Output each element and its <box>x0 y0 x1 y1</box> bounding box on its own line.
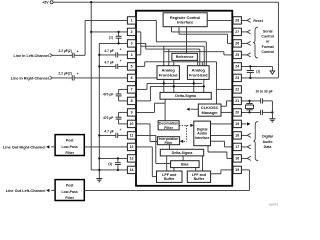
svg-text:Reference: Reference <box>176 55 194 59</box>
svg-text:26: 26 <box>235 42 239 46</box>
svg-text:9: 9 <box>131 111 133 115</box>
svg-text:Low-Pass: Low-Pass <box>62 190 78 194</box>
svg-text:4.7 µF: 4.7 µF <box>104 49 113 53</box>
svg-text:Control: Control <box>261 50 274 54</box>
svg-text:Line Out Right-Channel: Line Out Right-Channel <box>3 145 45 149</box>
svg-text:DS87F1: DS87F1 <box>269 203 279 207</box>
svg-text:10: 10 <box>130 122 134 126</box>
svg-text:Manager: Manager <box>202 110 219 115</box>
svg-text:Format: Format <box>262 45 275 49</box>
svg-text:LPF and: LPF and <box>162 173 176 177</box>
svg-text:+: + <box>120 59 122 63</box>
svg-text:13: 13 <box>130 157 134 161</box>
svg-text:Bias: Bias <box>181 162 188 166</box>
svg-text:470 pF: 470 pF <box>103 93 113 97</box>
svg-text:Buffer: Buffer <box>164 177 175 181</box>
svg-text:+: + <box>120 128 122 132</box>
svg-text:Filter: Filter <box>65 151 74 155</box>
svg-text:22: 22 <box>235 88 239 92</box>
svg-text:Audio: Audio <box>262 140 273 144</box>
svg-text:(1): (1) <box>108 162 112 166</box>
svg-text:Low-Pass: Low-Pass <box>62 145 78 149</box>
svg-text:Line In Right-Channel: Line In Right-Channel <box>11 76 49 80</box>
svg-text:21: 21 <box>235 99 239 103</box>
svg-text:24: 24 <box>235 65 239 69</box>
svg-text:2.2 µF(2): 2.2 µF(2) <box>58 71 71 75</box>
svg-text:470 pF: 470 pF <box>103 116 113 120</box>
svg-text:Filter: Filter <box>164 126 173 130</box>
svg-text:18: 18 <box>235 134 239 138</box>
svg-text:4: 4 <box>131 53 133 57</box>
svg-text:3: 3 <box>131 42 133 46</box>
svg-text:8: 8 <box>131 99 133 103</box>
svg-text:6: 6 <box>131 76 133 80</box>
svg-text:23: 23 <box>235 76 239 80</box>
svg-text:14: 14 <box>130 168 134 172</box>
svg-text:Front-End: Front-End <box>159 72 178 77</box>
svg-text:Filter: Filter <box>165 141 174 145</box>
svg-text:10 to 33 pF: 10 to 33 pF <box>255 89 272 93</box>
svg-text:LPF and: LPF and <box>192 173 206 177</box>
svg-text:27: 27 <box>235 30 239 34</box>
svg-text:28: 28 <box>235 19 239 23</box>
svg-text:Filter: Filter <box>65 196 74 200</box>
svg-text:Interface: Interface <box>195 136 210 140</box>
svg-text:16: 16 <box>235 157 239 161</box>
svg-text:Delta-Sigma: Delta-Sigma <box>175 94 197 98</box>
svg-text:Digital: Digital <box>262 135 273 139</box>
svg-text:5: 5 <box>131 65 133 69</box>
svg-text:7: 7 <box>131 88 133 92</box>
svg-text:Buffer: Buffer <box>194 177 205 181</box>
svg-text:19: 19 <box>235 122 239 126</box>
svg-text:Data: Data <box>264 145 272 149</box>
svg-text:Serial: Serial <box>263 29 273 33</box>
svg-text:(1): (1) <box>256 70 260 74</box>
svg-text:4.7 µF: 4.7 µF <box>104 129 113 133</box>
svg-text:17: 17 <box>235 145 239 149</box>
svg-text:+: + <box>120 48 122 52</box>
svg-text:Interface: Interface <box>177 20 194 25</box>
svg-text:12: 12 <box>130 145 134 149</box>
svg-text:Reset: Reset <box>253 19 263 23</box>
svg-text:Post: Post <box>66 184 74 188</box>
svg-text:11: 11 <box>130 134 134 138</box>
svg-text:4.7 µF: 4.7 µF <box>104 60 113 64</box>
svg-text:+: + <box>77 49 79 53</box>
svg-text:or: or <box>266 40 270 44</box>
svg-text:1: 1 <box>131 19 133 23</box>
svg-text:Line Out Left-Channel: Line Out Left-Channel <box>6 189 46 193</box>
svg-text:+: + <box>77 72 79 76</box>
svg-text:Post: Post <box>66 139 74 143</box>
svg-text:Front-End: Front-End <box>189 72 208 77</box>
svg-text:25: 25 <box>235 53 239 57</box>
svg-text:Control: Control <box>261 35 274 39</box>
svg-text:Delta-Sigma: Delta-Sigma <box>172 151 194 155</box>
svg-text:2: 2 <box>131 30 133 34</box>
svg-text:+5V: +5V <box>42 1 49 5</box>
svg-text:20: 20 <box>235 111 239 115</box>
svg-text:(1): (1) <box>109 36 113 40</box>
svg-text:2.2 µF(2): 2.2 µF(2) <box>58 49 71 53</box>
svg-text:Line In Left-Channel: Line In Left-Channel <box>14 54 49 58</box>
svg-text:15: 15 <box>235 168 239 172</box>
